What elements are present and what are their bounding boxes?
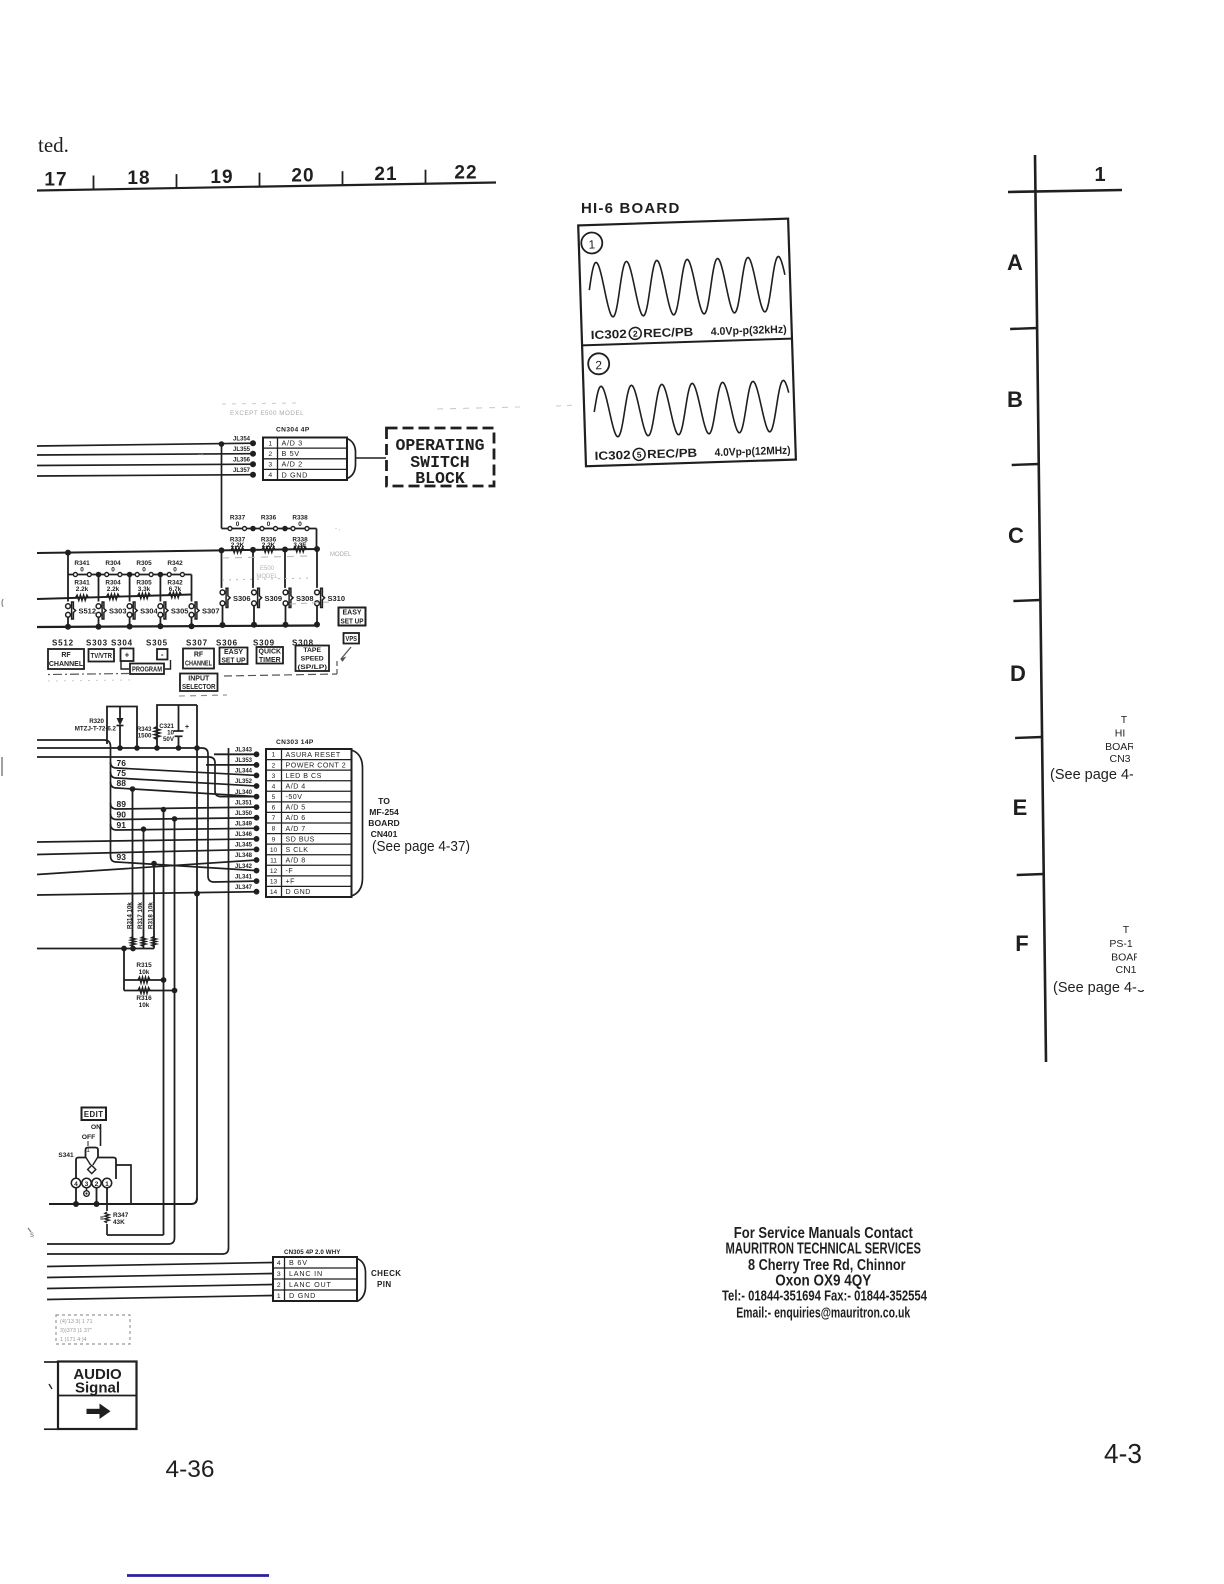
- svg-text:MF-254: MF-254: [369, 807, 399, 817]
- svg-text:OFF: OFF: [82, 1134, 96, 1141]
- svg-text:0: 0: [80, 566, 84, 573]
- svg-text:SET UP: SET UP: [222, 658, 246, 665]
- svg-text:6: 6: [272, 805, 276, 812]
- svg-text:B 6V: B 6V: [289, 1258, 308, 1267]
- svg-text:INPUT: INPUT: [188, 675, 210, 682]
- svg-text:S310: S310: [328, 594, 346, 603]
- svg-text:75: 75: [117, 768, 127, 778]
- svg-text:Signal: Signal: [75, 1380, 120, 1397]
- svg-text:C: C: [1008, 523, 1024, 548]
- svg-text:BOARD: BOARD: [368, 818, 400, 828]
- svg-text:JL356: JL356: [233, 458, 251, 464]
- svg-text:BLOCK: BLOCK: [415, 469, 465, 488]
- svg-text:S303: S303: [109, 607, 127, 616]
- svg-text:A/D 8: A/D 8: [286, 857, 306, 865]
- svg-text:TIMER: TIMER: [259, 657, 281, 664]
- svg-text:10k: 10k: [139, 969, 150, 976]
- svg-text:JL345: JL345: [235, 843, 253, 849]
- svg-text:2: 2: [272, 762, 276, 769]
- svg-text:CN3: CN3: [1109, 753, 1130, 765]
- svg-text:JL355: JL355: [233, 447, 251, 453]
- svg-text:E500: E500: [260, 566, 275, 572]
- svg-text:2: 2: [633, 329, 638, 339]
- svg-text:D GND: D GND: [286, 888, 311, 896]
- svg-text:JL354: JL354: [233, 437, 251, 443]
- svg-text:4-36: 4-36: [166, 1456, 215, 1483]
- svg-text:+: +: [125, 651, 130, 660]
- svg-text:CN1: CN1: [1115, 964, 1136, 976]
- svg-text:S304: S304: [111, 639, 133, 648]
- svg-text:10k: 10k: [139, 1002, 150, 1009]
- svg-text:S306: S306: [216, 639, 238, 648]
- svg-text:20: 20: [291, 165, 314, 186]
- svg-text:0: 0: [298, 521, 302, 528]
- svg-text:S CLK: S CLK: [286, 846, 309, 854]
- svg-text:89: 89: [117, 799, 127, 809]
- svg-text:REC/PB: REC/PB: [643, 325, 694, 341]
- svg-text:8: 8: [272, 826, 276, 833]
- svg-text:IC302: IC302: [594, 448, 631, 463]
- svg-text:R320: R320: [89, 718, 104, 725]
- svg-text:22: 22: [454, 163, 477, 184]
- svg-text:ASURA RESET: ASURA RESET: [286, 751, 341, 759]
- svg-text:HI-6 BOARD: HI-6 BOARD: [581, 200, 681, 217]
- svg-text:LANC OUT: LANC OUT: [289, 1280, 332, 1289]
- svg-text:1500: 1500: [138, 733, 152, 740]
- svg-text:0: 0: [267, 521, 271, 528]
- svg-text:IC302: IC302: [591, 327, 628, 342]
- svg-text:-F: -F: [286, 867, 294, 875]
- svg-text:1: 1: [105, 1181, 109, 1188]
- svg-text:EASY: EASY: [224, 649, 243, 656]
- svg-text:CN303 14P: CN303 14P: [276, 739, 314, 746]
- svg-text:2.2k: 2.2k: [76, 586, 89, 593]
- svg-text:(See page 4-3: (See page 4-3: [1053, 980, 1145, 996]
- svg-text:JL348: JL348: [235, 853, 253, 859]
- svg-text:21: 21: [374, 164, 397, 185]
- svg-text:JL346: JL346: [235, 832, 253, 838]
- svg-text:A/D 7: A/D 7: [286, 825, 306, 833]
- svg-text:LANC IN: LANC IN: [289, 1269, 323, 1278]
- svg-text:1: 1: [1094, 164, 1105, 186]
- svg-text:A/D 3: A/D 3: [282, 438, 303, 447]
- svg-text:S305: S305: [171, 607, 189, 616]
- svg-text:1: 1: [272, 752, 276, 759]
- svg-text:13: 13: [270, 879, 278, 886]
- svg-text:PROGRAM: PROGRAM: [132, 664, 162, 673]
- svg-text:R347: R347: [113, 1212, 129, 1219]
- svg-text:43K: 43K: [113, 1219, 125, 1226]
- svg-text:JL357: JL357: [233, 468, 251, 474]
- svg-text:B 5V: B 5V: [282, 449, 300, 458]
- svg-text:4: 4: [277, 1260, 281, 1267]
- svg-text:(4)'13 3( 1 71: (4)'13 3( 1 71: [60, 1319, 93, 1325]
- svg-text:EXCEPT E500 MODEL: EXCEPT E500 MODEL: [230, 410, 304, 417]
- svg-text:QUICK: QUICK: [259, 648, 282, 655]
- svg-text:JL343: JL343: [235, 748, 253, 754]
- svg-text:1: 1: [588, 237, 595, 251]
- svg-text:A/D 2: A/D 2: [282, 460, 303, 469]
- svg-text:S512: S512: [79, 607, 97, 616]
- svg-text:MODEL: MODEL: [256, 574, 278, 580]
- svg-text:A/D 6: A/D 6: [286, 814, 306, 822]
- svg-text:5: 5: [637, 450, 642, 460]
- svg-text:0: 0: [142, 566, 146, 573]
- svg-text:90: 90: [117, 809, 127, 819]
- svg-text:TV/VTR: TV/VTR: [91, 651, 113, 660]
- svg-text:SPEED: SPEED: [301, 656, 324, 663]
- svg-text:1: 1: [277, 1293, 281, 1300]
- svg-text:A/D 5: A/D 5: [286, 804, 306, 812]
- svg-text:POWER CONT 2: POWER CONT 2: [286, 761, 347, 769]
- svg-text:R317 10k: R317 10k: [137, 902, 144, 929]
- svg-text:4.0Vp-p(32kHz): 4.0Vp-p(32kHz): [711, 324, 788, 338]
- svg-text:JL352: JL352: [235, 779, 253, 785]
- svg-text:SET UP: SET UP: [341, 618, 364, 625]
- svg-text:-: -: [161, 650, 164, 659]
- svg-text:12: 12: [270, 868, 278, 875]
- svg-text:3: 3: [85, 1181, 89, 1188]
- svg-text:EDIT: EDIT: [84, 1110, 104, 1119]
- svg-text:JL351: JL351: [235, 800, 253, 806]
- svg-text:S306: S306: [233, 594, 251, 603]
- svg-text:TAPE: TAPE: [303, 647, 321, 654]
- svg-text:CHECK: CHECK: [371, 1269, 401, 1278]
- svg-text:A: A: [1007, 250, 1023, 275]
- svg-text:R314 10k: R314 10k: [127, 902, 134, 929]
- svg-text:S307: S307: [202, 607, 220, 616]
- svg-text:S307: S307: [186, 639, 208, 648]
- svg-text:S309: S309: [265, 594, 283, 603]
- svg-text:BOAR: BOAR: [1105, 741, 1135, 753]
- svg-text:88: 88: [117, 778, 127, 788]
- svg-text:T: T: [1121, 714, 1128, 726]
- svg-text:19: 19: [210, 167, 233, 188]
- svg-text:R316: R316: [136, 995, 152, 1002]
- svg-text:PIN: PIN: [377, 1280, 392, 1289]
- svg-text:JL344: JL344: [235, 769, 253, 775]
- svg-text:4: 4: [74, 1181, 78, 1188]
- svg-text:(SP/LP): (SP/LP): [298, 664, 328, 671]
- svg-text:0: 0: [236, 521, 240, 528]
- svg-text:2: 2: [268, 451, 272, 458]
- svg-text:MTZJ-T-72-6.2: MTZJ-T-72-6.2: [75, 726, 117, 733]
- svg-text:4: 4: [268, 472, 272, 479]
- svg-text:D GND: D GND: [289, 1291, 316, 1300]
- svg-text:R318 10k: R318 10k: [148, 902, 155, 929]
- svg-text:B: B: [1007, 387, 1023, 412]
- svg-text:S303: S303: [86, 639, 108, 648]
- svg-text:≣: ≣: [100, 1213, 104, 1222]
- svg-text:S304: S304: [140, 607, 158, 616]
- svg-text:11: 11: [270, 857, 277, 864]
- svg-text:JL341: JL341: [235, 874, 253, 880]
- svg-text:JL347: JL347: [235, 885, 253, 891]
- svg-text:F: F: [1015, 931, 1028, 956]
- svg-text:S308: S308: [296, 594, 314, 603]
- svg-text:17: 17: [44, 170, 67, 191]
- svg-text:→: →: [196, 448, 205, 458]
- svg-text:Tel:- 01844-351694 Fax:- 01844: Tel:- 01844-351694 Fax:- 01844-352554: [722, 1288, 927, 1305]
- svg-text:-50V: -50V: [286, 793, 303, 801]
- svg-text:(See page 4-3: (See page 4-3: [1050, 767, 1142, 783]
- svg-text:0: 0: [111, 566, 115, 573]
- svg-text:SELECTOR: SELECTOR: [182, 684, 216, 691]
- svg-text:Email:- enquiries@mauritron.co: Email:- enquiries@mauritron.co.uk: [736, 1304, 910, 1321]
- svg-text:JL350: JL350: [235, 811, 253, 817]
- svg-text:CHANNEL: CHANNEL: [49, 661, 84, 668]
- svg-text:BOAR: BOAR: [1111, 952, 1141, 964]
- svg-text:ted.: ted.: [38, 133, 69, 157]
- svg-text:RF: RF: [194, 652, 204, 659]
- svg-text:CN305 4P 2.0 WHY: CN305 4P 2.0 WHY: [284, 1249, 341, 1256]
- svg-text:A/D 4: A/D 4: [286, 783, 306, 791]
- svg-text:91: 91: [117, 820, 127, 830]
- svg-text:HI: HI: [1115, 728, 1126, 740]
- svg-text:D: D: [1010, 661, 1026, 686]
- svg-text:E: E: [1013, 795, 1028, 820]
- svg-text:TO: TO: [378, 796, 390, 806]
- svg-text:3))373 )1 37'': 3))373 )1 37'': [60, 1328, 92, 1334]
- svg-text:- ,: - ,: [335, 526, 341, 532]
- svg-text:2: 2: [595, 358, 602, 372]
- svg-text:CHANNEL: CHANNEL: [185, 660, 213, 667]
- svg-text:7: 7: [272, 815, 276, 822]
- svg-text:2: 2: [95, 1181, 99, 1188]
- svg-text:50V: 50V: [163, 736, 175, 743]
- svg-text:REC/PB: REC/PB: [647, 446, 698, 462]
- svg-text:1 )171 4:)4: 1 )171 4:)4: [60, 1337, 87, 1343]
- svg-text:76: 76: [117, 758, 127, 768]
- svg-text:PS-1: PS-1: [1109, 938, 1133, 950]
- svg-text:MODEL: MODEL: [330, 552, 352, 558]
- svg-text:+F: +F: [286, 878, 296, 886]
- svg-text:4.0Vp-p(12MHz): 4.0Vp-p(12MHz): [714, 445, 791, 459]
- svg-text:ON: ON: [91, 1124, 101, 1131]
- svg-text:D GND: D GND: [282, 470, 309, 479]
- svg-text:4-3: 4-3: [1104, 1438, 1142, 1469]
- svg-text:2: 2: [277, 1282, 281, 1289]
- svg-text:SD BUS: SD BUS: [286, 835, 315, 843]
- svg-text:VPS: VPS: [346, 634, 358, 643]
- svg-text:S512: S512: [52, 639, 74, 648]
- svg-text:JL353: JL353: [235, 758, 253, 764]
- svg-text:LED B CS: LED B CS: [286, 772, 322, 780]
- svg-text:EASY: EASY: [342, 610, 361, 617]
- svg-text:JL340: JL340: [235, 790, 253, 796]
- svg-text:3: 3: [277, 1271, 281, 1278]
- svg-text:2.2k: 2.2k: [107, 586, 120, 593]
- svg-text:3: 3: [268, 462, 272, 469]
- svg-text:18: 18: [127, 168, 150, 189]
- svg-text:3: 3: [272, 773, 276, 780]
- svg-text:10: 10: [270, 847, 278, 854]
- svg-text:5: 5: [272, 794, 276, 801]
- svg-text:T: T: [1123, 924, 1130, 936]
- svg-text:CN304 4P: CN304 4P: [276, 427, 310, 434]
- svg-text:1: 1: [268, 440, 272, 447]
- svg-text:MAURITRON TECHNICAL SERVICES: MAURITRON TECHNICAL SERVICES: [726, 1240, 922, 1257]
- svg-text:+: +: [185, 724, 189, 731]
- svg-text:JL342: JL342: [235, 864, 253, 870]
- svg-text:9: 9: [272, 836, 276, 843]
- svg-text:S305: S305: [146, 639, 168, 648]
- svg-text:14: 14: [270, 889, 278, 896]
- svg-text:0: 0: [173, 566, 177, 573]
- svg-text:JL349: JL349: [235, 822, 253, 828]
- svg-text:R315: R315: [136, 962, 152, 969]
- svg-text:4: 4: [272, 783, 276, 790]
- svg-text:S341: S341: [58, 1152, 74, 1159]
- svg-text:RF: RF: [61, 652, 71, 659]
- svg-text:(See page 4-37): (See page 4-37): [372, 838, 470, 855]
